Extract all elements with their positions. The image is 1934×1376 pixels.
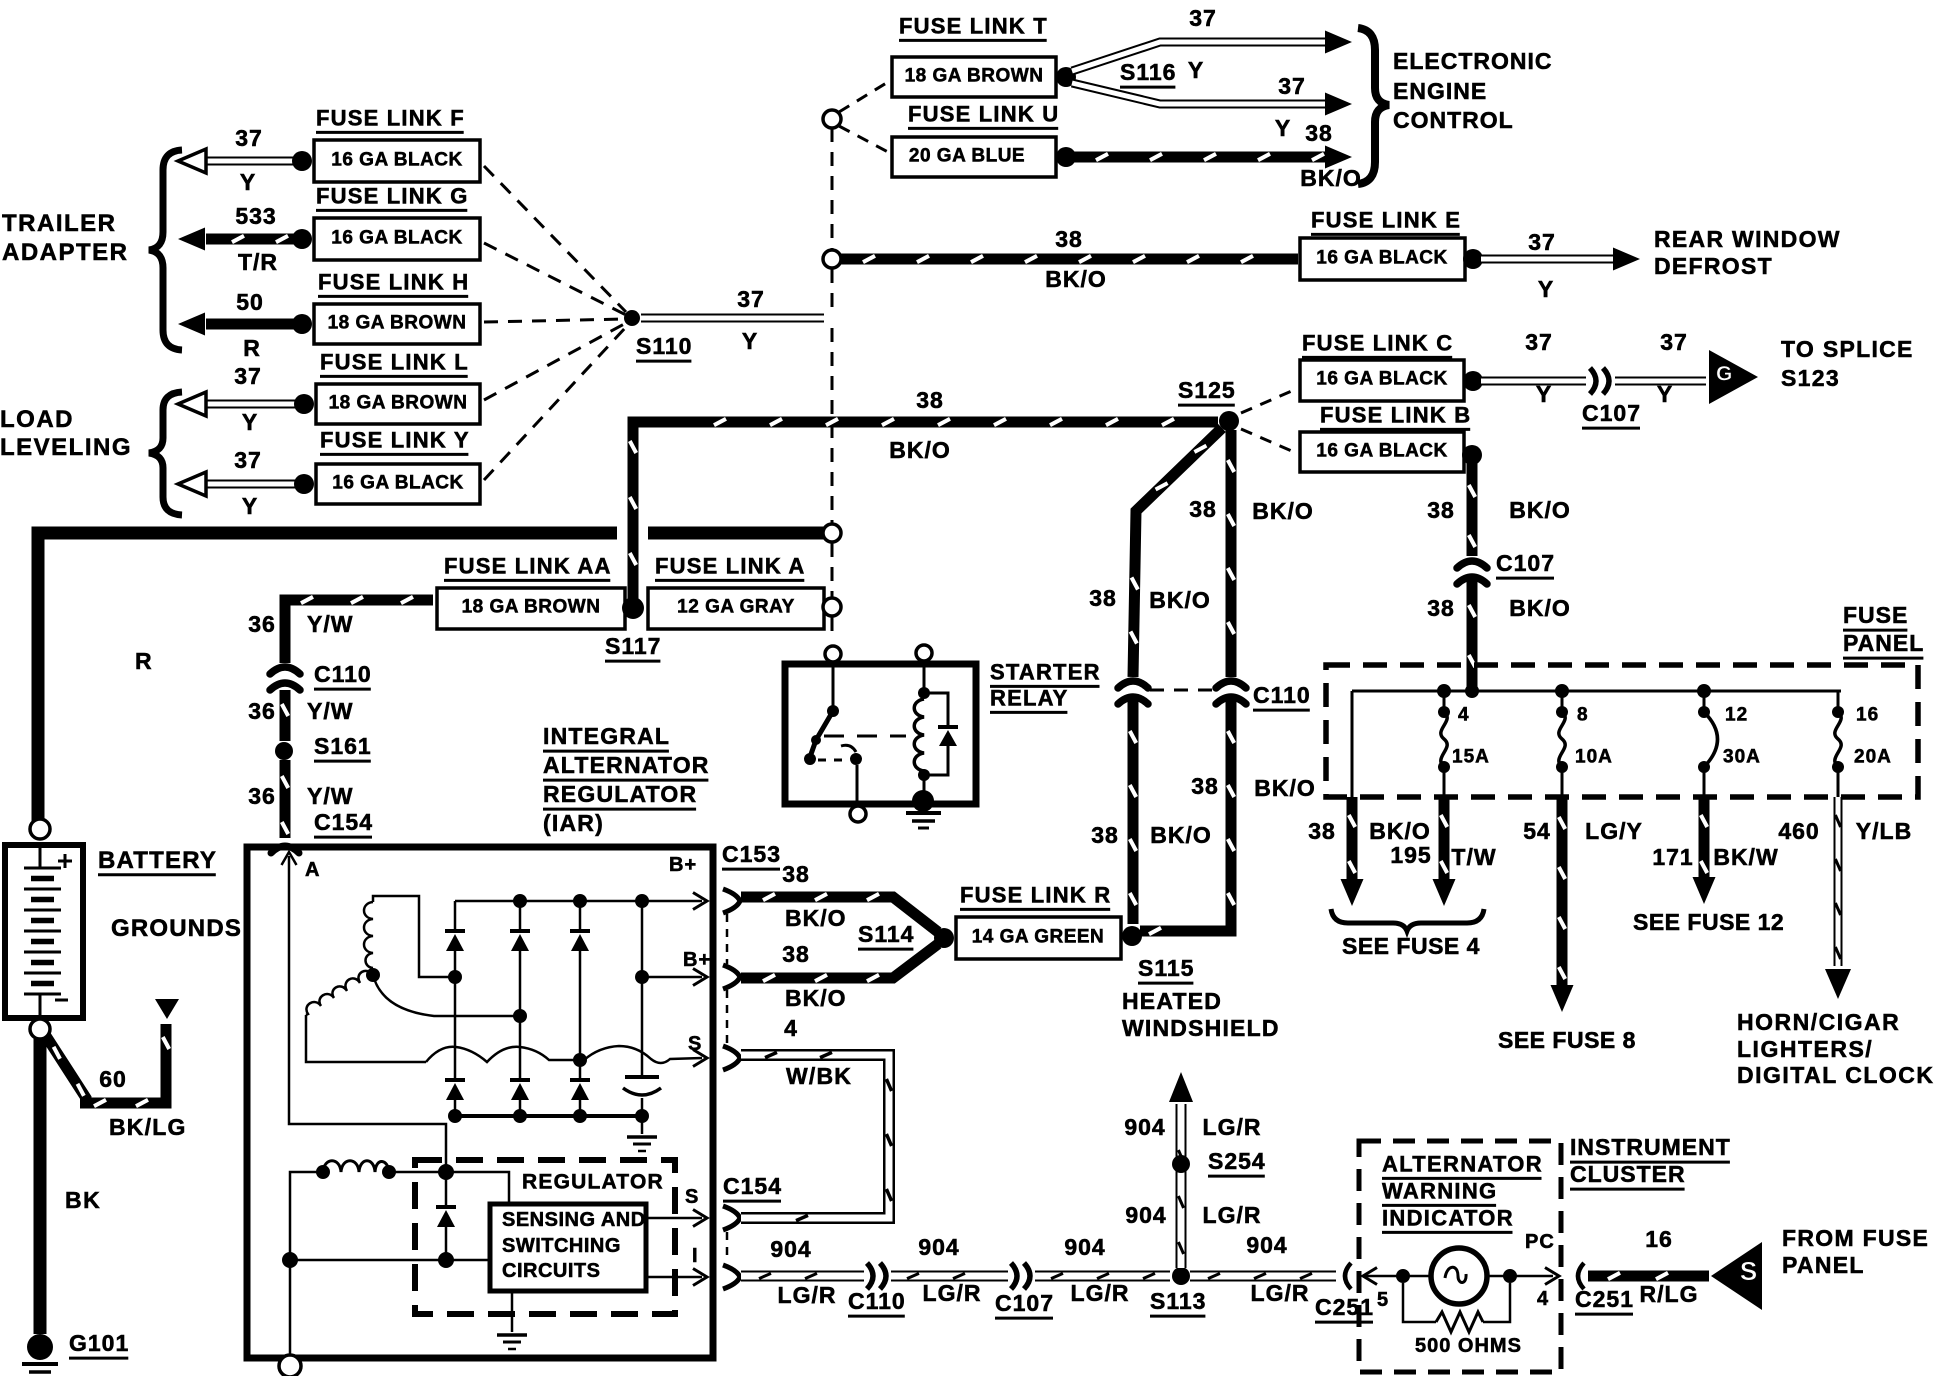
wire 904 LG/R S113 to C251 xyxy=(1190,1271,1336,1282)
dashed lead fuse link F to S110 xyxy=(484,166,626,312)
svg-text:195: 195 xyxy=(1390,842,1431,868)
svg-text:37: 37 xyxy=(1525,329,1553,355)
svg-text:ENGINE: ENGINE xyxy=(1393,78,1487,104)
svg-text:37: 37 xyxy=(234,363,262,389)
svg-text:4: 4 xyxy=(1537,1288,1549,1310)
off-page arrow G to splice S123 xyxy=(1709,350,1758,404)
wire 904 LG/R S113 to S254 branch xyxy=(1176,1104,1187,1268)
svg-text:38: 38 xyxy=(916,387,944,413)
svg-text:B+: B+ xyxy=(683,949,711,971)
svg-text:904: 904 xyxy=(1125,1202,1166,1228)
svg-text:SEE FUSE 4: SEE FUSE 4 xyxy=(1342,933,1480,959)
connector C107 inline xyxy=(1011,1263,1017,1289)
svg-text:FUSE LINK A: FUSE LINK A xyxy=(655,553,806,578)
wire 38 BK/O S117 to S125 xyxy=(633,422,1218,599)
connector C107 xyxy=(1590,368,1596,394)
svg-text:38: 38 xyxy=(1305,120,1333,146)
wire 38 BK/O to fuse link E xyxy=(841,254,1298,265)
svg-text:R/LG: R/LG xyxy=(1640,1281,1699,1307)
svg-text:PC: PC xyxy=(1525,1231,1555,1253)
wire 4 W/BK stator sense loop xyxy=(741,1055,889,1218)
svg-text:8: 8 xyxy=(1577,704,1589,725)
connector C110 on right wire xyxy=(1216,681,1246,688)
svg-text:S115: S115 xyxy=(1138,955,1194,981)
svg-text:S117: S117 xyxy=(605,633,661,659)
svg-text:37: 37 xyxy=(235,125,263,151)
svg-text:C107: C107 xyxy=(1582,400,1641,426)
svg-text:38: 38 xyxy=(1055,226,1083,252)
wire 38 BK/O C110 to S115 left xyxy=(1128,697,1139,924)
svg-text:REGULATOR: REGULATOR xyxy=(522,1171,664,1194)
svg-text:16 GA BLACK: 16 GA BLACK xyxy=(331,227,462,248)
junction dot at fuse link E xyxy=(1463,249,1483,269)
wire 460 Y/LB to horn cigar lighters clock xyxy=(1834,797,1843,966)
dashed actuator link xyxy=(824,735,906,738)
pin 5 entry arrow xyxy=(1363,1268,1377,1285)
svg-text:18 GA BROWN: 18 GA BROWN xyxy=(329,392,468,413)
wire 36 Y/W S161 to C154 xyxy=(280,760,291,838)
svg-text:FUSE LINK T: FUSE LINK T xyxy=(899,13,1048,38)
svg-text:S254: S254 xyxy=(1208,1148,1266,1174)
svg-text:904: 904 xyxy=(918,1234,959,1260)
svg-text:S123: S123 xyxy=(1781,365,1840,391)
rectifier bottom bus xyxy=(455,1114,642,1118)
svg-text:R: R xyxy=(135,648,153,674)
svg-text:INDICATOR: INDICATOR xyxy=(1382,1205,1514,1230)
svg-text:RELAY: RELAY xyxy=(990,685,1069,710)
svg-text:LIGHTERS/: LIGHTERS/ xyxy=(1737,1036,1873,1062)
wire 37 Y to electronic engine control upper xyxy=(1072,42,1330,71)
junction dot at fuse link Y xyxy=(294,474,314,494)
dashed branch to fuse link U xyxy=(839,126,888,152)
svg-text:T/R: T/R xyxy=(238,249,278,275)
fuse 16 20A xyxy=(1837,691,1840,712)
svg-text:C110: C110 xyxy=(1253,682,1311,708)
svg-text:37: 37 xyxy=(1660,329,1688,355)
wire 38 BK/O S125 to C110 left xyxy=(1133,428,1222,677)
dashed lead fuse link Y to S110 xyxy=(484,327,626,480)
svg-text:14 GA GREEN: 14 GA GREEN xyxy=(972,926,1105,947)
svg-text:37: 37 xyxy=(1189,5,1217,31)
svg-text:S: S xyxy=(688,1033,702,1055)
stator winding xyxy=(373,896,450,977)
svg-text:TRAILER: TRAILER xyxy=(2,210,117,237)
svg-text:REAR WINDOW: REAR WINDOW xyxy=(1654,226,1841,252)
svg-text:BK/O: BK/O xyxy=(1509,595,1571,621)
splice S254 xyxy=(1172,1155,1190,1173)
svg-text:10A: 10A xyxy=(1575,746,1613,767)
svg-text:Y: Y xyxy=(1538,276,1554,302)
wire 38 BK/O C110 to S115 right xyxy=(1140,697,1231,931)
junction dot at fuse link G xyxy=(292,229,312,249)
brace see fuse 4 xyxy=(1331,909,1484,931)
pin S regulator output xyxy=(646,1217,702,1220)
wire lower bus to sensing circuits xyxy=(290,1259,490,1262)
battery B1 xyxy=(5,845,83,1018)
circuit breaker 12 30A xyxy=(1703,691,1706,712)
svg-text:FUSE LINK R: FUSE LINK R xyxy=(960,882,1111,907)
svg-text:LG/R: LG/R xyxy=(923,1280,982,1306)
wire BK battery to G101 xyxy=(34,1039,47,1334)
svg-text:FUSE: FUSE xyxy=(1843,602,1908,628)
svg-text:533: 533 xyxy=(235,203,276,229)
svg-text:S110: S110 xyxy=(636,333,692,359)
wire to case terminal xyxy=(289,1260,292,1356)
battery negative terminal xyxy=(30,1019,50,1039)
svg-text:HEATED: HEATED xyxy=(1122,988,1222,1014)
wire 38 BK/O C107 to fuse panel xyxy=(1467,577,1478,691)
fuse 8 10A xyxy=(1561,691,1564,712)
relay terminal top right xyxy=(916,645,932,661)
svg-text:460: 460 xyxy=(1778,818,1819,844)
svg-text:S: S xyxy=(1740,1256,1758,1286)
svg-text:38: 38 xyxy=(1089,585,1117,611)
pin I regulator output xyxy=(646,1276,702,1279)
svg-text:FUSE LINK Y: FUSE LINK Y xyxy=(320,427,470,452)
wire to sensing circuits top xyxy=(446,1172,509,1204)
svg-text:FUSE LINK F: FUSE LINK F xyxy=(316,105,465,130)
svg-text:FUSE LINK AA: FUSE LINK AA xyxy=(444,553,612,578)
relay terminal top left xyxy=(825,646,841,662)
svg-text:BK/O: BK/O xyxy=(1369,818,1431,844)
svg-text:BK/W: BK/W xyxy=(1713,844,1778,870)
ground G101 xyxy=(27,1334,53,1360)
svg-text:LEVELING: LEVELING xyxy=(0,434,132,461)
svg-text:38: 38 xyxy=(782,941,810,967)
svg-text:BK/O: BK/O xyxy=(1252,498,1314,524)
svg-text:LG/R: LG/R xyxy=(778,1282,837,1308)
svg-text:Y/LB: Y/LB xyxy=(1856,818,1912,844)
svg-text:38: 38 xyxy=(1091,822,1119,848)
svg-text:Y: Y xyxy=(240,169,256,195)
svg-text:BK/O: BK/O xyxy=(1254,775,1316,801)
svg-text:PANEL: PANEL xyxy=(1843,630,1924,656)
svg-text:S: S xyxy=(685,1186,699,1208)
svg-text:HORN/CIGAR: HORN/CIGAR xyxy=(1737,1009,1900,1035)
connector C251 left xyxy=(1345,1263,1351,1289)
ground capacitor xyxy=(641,1116,644,1134)
svg-text:20A: 20A xyxy=(1854,746,1892,767)
wire 54 LG/Y to see fuse 8 xyxy=(1557,797,1568,986)
dashed lead S125 to fuse link C xyxy=(1241,390,1294,413)
svg-text:S114: S114 xyxy=(858,921,914,947)
svg-text:LG/R: LG/R xyxy=(1071,1280,1130,1306)
svg-text:904: 904 xyxy=(770,1236,811,1262)
wire 195 T/W to see fuse 4 xyxy=(1439,797,1450,880)
svg-text:Y: Y xyxy=(242,493,258,519)
junction dot field/feed xyxy=(438,1164,454,1180)
wire 37 Y to trailer/load L xyxy=(206,400,304,409)
rectifier bridge xyxy=(454,901,457,931)
svg-text:LG/R: LG/R xyxy=(1203,1202,1262,1228)
svg-text:S116: S116 xyxy=(1120,59,1176,85)
svg-text:C251: C251 xyxy=(1315,1294,1374,1320)
svg-text:INSTRUMENT: INSTRUMENT xyxy=(1570,1134,1731,1160)
node at fuse link A output xyxy=(823,598,841,616)
svg-text:A: A xyxy=(305,859,320,881)
svg-text:Y: Y xyxy=(1275,115,1291,141)
svg-text:36: 36 xyxy=(248,698,276,724)
splice S161 xyxy=(275,742,293,760)
wire R battery positive feed xyxy=(38,533,617,822)
junction dot bus entry xyxy=(1465,684,1479,698)
connector C110 on left wire xyxy=(1118,681,1148,688)
svg-text:BK/O: BK/O xyxy=(785,985,847,1011)
node A internal feed xyxy=(289,856,446,1168)
svg-text:38: 38 xyxy=(1308,818,1336,844)
svg-text:16 GA BLACK: 16 GA BLACK xyxy=(1316,247,1447,268)
svg-text:R: R xyxy=(243,335,261,361)
dashed branch to fuse link T xyxy=(839,82,888,112)
svg-text:37: 37 xyxy=(1278,73,1306,99)
svg-text:Y: Y xyxy=(1657,381,1673,407)
svg-text:CIRCUITS: CIRCUITS xyxy=(502,1260,600,1282)
svg-text:16: 16 xyxy=(1856,704,1879,725)
svg-text:FUSE LINK H: FUSE LINK H xyxy=(318,269,469,294)
svg-text:500 OHMS: 500 OHMS xyxy=(1415,1335,1522,1357)
dashed link between C110 halves xyxy=(1150,689,1212,692)
svg-text:54: 54 xyxy=(1523,818,1551,844)
svg-text:SEE FUSE 12: SEE FUSE 12 xyxy=(1633,909,1784,935)
junction dot at fuse link F xyxy=(292,151,312,171)
svg-text:20 GA BLUE: 20 GA BLUE xyxy=(909,145,1025,166)
wire 533 T/R to trailer/load G xyxy=(206,234,302,245)
splice S110 xyxy=(624,310,640,326)
svg-text:ADAPTER: ADAPTER xyxy=(2,239,129,266)
svg-text:S161: S161 xyxy=(314,733,372,759)
svg-text:LG/R: LG/R xyxy=(1251,1280,1310,1306)
junction dot lamp left xyxy=(1396,1269,1410,1283)
svg-text:Y: Y xyxy=(242,409,258,435)
junction dot at fuse link U xyxy=(1056,147,1076,167)
svg-text:SENSING AND: SENSING AND xyxy=(502,1209,646,1231)
svg-text:C251: C251 xyxy=(1575,1286,1634,1312)
brace load leveling xyxy=(149,392,182,515)
svg-text:BK/LG: BK/LG xyxy=(109,1114,187,1140)
splice dot S115 heated windshield xyxy=(1122,926,1142,946)
wire 38 BK/O B+ upper to S114 xyxy=(741,897,938,932)
wire 904 LG/R C107 to S113 xyxy=(1035,1271,1170,1282)
svg-text:WINDSHIELD: WINDSHIELD xyxy=(1122,1015,1280,1041)
svg-text:C107: C107 xyxy=(1496,550,1555,576)
svg-text:SEE FUSE 8: SEE FUSE 8 xyxy=(1498,1027,1636,1053)
svg-text:FUSE LINK L: FUSE LINK L xyxy=(320,349,469,374)
svg-text:C107: C107 xyxy=(995,1290,1054,1316)
svg-text:BK/O: BK/O xyxy=(785,905,847,931)
connector C251 right xyxy=(1578,1263,1584,1289)
svg-text:171: 171 xyxy=(1652,844,1693,870)
svg-text:Y: Y xyxy=(1536,381,1552,407)
svg-text:SWITCHING: SWITCHING xyxy=(502,1235,621,1257)
alternator warning lamp xyxy=(1431,1248,1487,1304)
svg-text:5: 5 xyxy=(1377,1289,1389,1311)
svg-text:FUSE LINK C: FUSE LINK C xyxy=(1302,330,1453,355)
svg-text:LG/R: LG/R xyxy=(1203,1114,1262,1140)
dashed lead fuse link L to S110 xyxy=(484,323,626,400)
wire 38 BK/O fuse link B to C107 xyxy=(1467,461,1478,556)
node on feed line for fuse link E xyxy=(823,250,841,268)
junction dot at fuse link H xyxy=(292,314,312,334)
svg-text:BK/O: BK/O xyxy=(1509,497,1571,523)
svg-text:37: 37 xyxy=(737,286,765,312)
connector C110 inline xyxy=(867,1263,873,1289)
svg-text:BK: BK xyxy=(65,1187,101,1213)
svg-text:38: 38 xyxy=(1191,773,1219,799)
svg-text:B+: B+ xyxy=(669,854,697,876)
svg-text:4: 4 xyxy=(784,1015,798,1041)
svg-text:ALTERNATOR: ALTERNATOR xyxy=(543,752,710,778)
regulator dashed box xyxy=(415,1160,675,1314)
wire 37 Y to splice S123 xyxy=(1615,377,1706,386)
svg-text:TO SPLICE: TO SPLICE xyxy=(1781,336,1914,362)
wire 50 R to trailer/load H xyxy=(206,319,302,330)
svg-text:FUSE LINK U: FUSE LINK U xyxy=(908,101,1059,126)
svg-text:LOAD: LOAD xyxy=(0,406,74,433)
svg-text:CLUSTER: CLUSTER xyxy=(1570,1161,1686,1187)
svg-text:FUSE LINK E: FUSE LINK E xyxy=(1311,207,1461,232)
svg-text:38: 38 xyxy=(782,861,810,887)
wire 36 Y/W C110 to S161 xyxy=(280,690,291,741)
svg-text:BK/O: BK/O xyxy=(1150,822,1212,848)
wire 38 BK/O to see fuse 4 left xyxy=(1347,797,1358,880)
brace electronic engine control xyxy=(1358,28,1389,184)
svg-text:INTEGRAL: INTEGRAL xyxy=(543,723,670,749)
fuse panel dashed box xyxy=(1326,665,1918,797)
svg-text:C110: C110 xyxy=(314,661,372,687)
svg-text:Y: Y xyxy=(1188,57,1204,83)
svg-text:16 GA BLACK: 16 GA BLACK xyxy=(1316,440,1447,461)
dashed lead S125 to fuse link B xyxy=(1241,429,1294,452)
svg-text:18 GA BROWN: 18 GA BROWN xyxy=(905,65,1044,86)
wire bus left branch xyxy=(1351,691,1354,797)
junction dot at fuse link L xyxy=(294,394,314,414)
relay coil xyxy=(923,661,926,689)
pin 4 exit arrow xyxy=(1545,1268,1559,1285)
svg-text:16: 16 xyxy=(1645,1226,1673,1252)
svg-text:BK/O: BK/O xyxy=(1300,165,1362,191)
svg-text:C154: C154 xyxy=(314,809,373,835)
splice S117 xyxy=(622,597,644,619)
wire 16 R/LG from fuse panel xyxy=(1588,1271,1709,1282)
svg-text:G101: G101 xyxy=(69,1330,129,1356)
wire 38 BK/O to electronic engine control lower xyxy=(1074,152,1330,163)
dashed lead fuse link H to S110 xyxy=(484,319,626,322)
brace trailer adapter xyxy=(149,150,182,350)
node at top of feed line xyxy=(823,110,841,128)
svg-text:15A: 15A xyxy=(1452,746,1490,767)
svg-text:37: 37 xyxy=(234,447,262,473)
wire 37 Y to trailer/load Y xyxy=(206,480,304,489)
svg-text:FUSE LINK B: FUSE LINK B xyxy=(1320,402,1471,427)
relay clamp diode xyxy=(924,693,948,726)
junction dot lamp right xyxy=(1487,1275,1553,1278)
svg-text:ALTERNATOR: ALTERNATOR xyxy=(1382,1151,1543,1176)
svg-text:Y: Y xyxy=(742,328,758,354)
splice S114 xyxy=(934,928,954,948)
field winding L1 xyxy=(316,1165,330,1179)
svg-text:60: 60 xyxy=(99,1066,127,1092)
svg-text:36: 36 xyxy=(248,783,276,809)
wire 171 BK/W to see fuse 12 xyxy=(1699,797,1710,878)
fuse 4 15A xyxy=(1443,691,1446,712)
wire 60 BK/LG ground strap xyxy=(46,1036,86,1103)
relay terminal bottom xyxy=(850,806,866,822)
splice dot S125 xyxy=(1219,411,1239,431)
svg-text:16 GA BLACK: 16 GA BLACK xyxy=(331,149,462,170)
pin S stator output xyxy=(693,1050,707,1067)
junction dot S116 xyxy=(1056,67,1076,87)
svg-text:DIGITAL CLOCK: DIGITAL CLOCK xyxy=(1737,1062,1934,1088)
wire 37 Y to electronic engine control middle xyxy=(1072,83,1330,104)
svg-text:36: 36 xyxy=(248,611,276,637)
wire 37 Y to connector C107 xyxy=(1481,377,1586,386)
svg-text:REGULATOR: REGULATOR xyxy=(543,781,697,807)
arrow to grounds xyxy=(155,999,179,1019)
svg-text:BK/O: BK/O xyxy=(1045,266,1107,292)
svg-text:904: 904 xyxy=(1064,1234,1105,1260)
svg-text:WARNING: WARNING xyxy=(1382,1178,1497,1203)
svg-text:STARTER: STARTER xyxy=(990,659,1101,684)
svg-text:904: 904 xyxy=(1124,1114,1165,1140)
svg-text:W/BK: W/BK xyxy=(786,1063,852,1089)
instrument cluster dashed box xyxy=(1359,1141,1561,1372)
wire 37 Y to trailer/load F xyxy=(206,157,304,166)
connector C107 vertical xyxy=(1457,561,1487,568)
svg-text:4: 4 xyxy=(1458,704,1470,725)
svg-text:CONTROL: CONTROL xyxy=(1393,107,1514,133)
svg-text:12: 12 xyxy=(1725,704,1748,725)
starter relay K1 box xyxy=(785,664,976,804)
wire to pin B+ second xyxy=(641,901,644,1077)
field diode xyxy=(445,1172,448,1206)
svg-text:FUSE LINK G: FUSE LINK G xyxy=(316,183,469,208)
svg-text:Y/W: Y/W xyxy=(307,611,353,637)
dashed lead fuse link G to S110 xyxy=(484,243,626,315)
svg-text:38: 38 xyxy=(1427,497,1455,523)
wire 38 BK/O B+ lower to S114 xyxy=(741,944,938,978)
svg-text:BK/O: BK/O xyxy=(1149,587,1211,613)
svg-text:(IAR): (IAR) xyxy=(543,810,604,836)
sensing and switching circuits box xyxy=(490,1204,646,1291)
svg-text:S125: S125 xyxy=(1178,377,1236,403)
relay ground xyxy=(912,790,934,812)
wire 904 LG/R I output to C110 xyxy=(741,1271,864,1282)
junction dots lower bus xyxy=(282,1252,298,1268)
wire 38 BK/O S125 to C110 right xyxy=(1226,430,1237,677)
svg-text:LG/Y: LG/Y xyxy=(1585,818,1643,844)
svg-text:Y/W: Y/W xyxy=(307,698,353,724)
dashed feed line xyxy=(831,128,834,249)
connector C154 wire end xyxy=(271,846,299,853)
svg-text:16 GA BLACK: 16 GA BLACK xyxy=(1316,368,1447,389)
svg-text:16 GA BLACK: 16 GA BLACK xyxy=(332,472,463,493)
svg-text:C154: C154 xyxy=(723,1173,782,1199)
junction dots rectifier xyxy=(448,970,462,984)
svg-text:12 GA GRAY: 12 GA GRAY xyxy=(677,596,795,617)
wire 37 Y to rear window defrost xyxy=(1481,255,1622,264)
arrow continuation up xyxy=(1169,1072,1193,1102)
svg-text:ELECTRONIC: ELECTRONIC xyxy=(1393,48,1553,74)
svg-text:FROM FUSE: FROM FUSE xyxy=(1782,1225,1929,1251)
svg-text:18 GA BROWN: 18 GA BROWN xyxy=(462,596,601,617)
fuse panel bus wire xyxy=(1352,690,1841,693)
svg-text:S113: S113 xyxy=(1150,1288,1206,1314)
connector C110 on Y/W wire xyxy=(270,667,300,674)
relay fixed contact xyxy=(850,753,862,765)
svg-text:38: 38 xyxy=(1189,496,1217,522)
svg-text:30A: 30A xyxy=(1723,746,1761,767)
svg-text:C153: C153 xyxy=(722,841,781,867)
